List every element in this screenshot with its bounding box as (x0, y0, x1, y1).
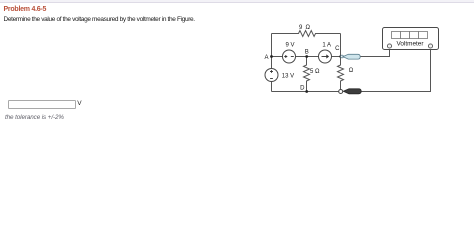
svg-text:13 V: 13 V (282, 73, 294, 79)
svg-text:B: B (305, 50, 309, 56)
svg-text:Voltmeter: Voltmeter (397, 41, 425, 48)
svg-text:1 A: 1 A (322, 42, 331, 48)
svg-text:9 Ω: 9 Ω (299, 25, 311, 31)
svg-text:9 V: 9 V (285, 42, 294, 48)
svg-text:C: C (335, 46, 340, 52)
svg-text:5 Ω: 5 Ω (310, 69, 320, 75)
svg-text:Ω: Ω (349, 68, 354, 74)
svg-text:D: D (300, 85, 305, 91)
svg-text:A: A (264, 55, 268, 61)
